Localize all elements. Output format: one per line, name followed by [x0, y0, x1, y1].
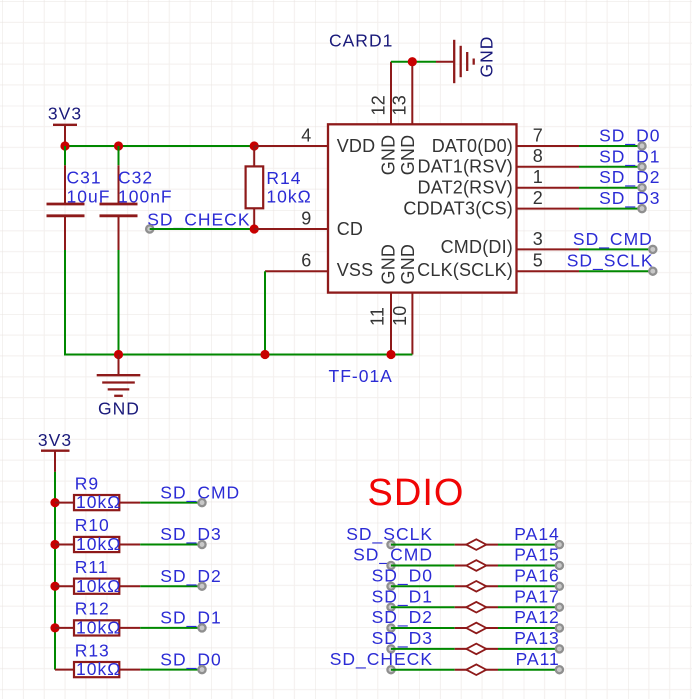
wire SD_SCLK to port: [391, 544, 455, 546]
resistor R12: [55, 599, 140, 638]
svg-text:5: 5: [533, 251, 543, 271]
net port SD_CHECK-PA11: [455, 664, 498, 675]
svg-text:10kΩ: 10kΩ: [76, 534, 121, 554]
wire SD_CHECK to port: [391, 669, 455, 671]
net label SD_SCLK: [567, 251, 657, 275]
svg-text:PA16: PA16: [514, 566, 560, 586]
pin 3 (SD_CMD): [517, 229, 580, 250]
svg-text:SD_D2: SD_D2: [160, 566, 221, 587]
pin name DAT1(RSV): [418, 157, 513, 177]
wire SD_CMD to port: [391, 565, 455, 567]
junction: [114, 141, 123, 150]
svg-text:GND: GND: [398, 135, 418, 176]
net port SD_SCLK-PA14: [455, 539, 498, 550]
wire C32 to ground rail: [118, 250, 120, 355]
net label SD_D3: [372, 628, 433, 652]
svg-text:SD_D2: SD_D2: [372, 607, 433, 628]
wire port to PA11: [498, 669, 559, 671]
wire C31 to ground rail: [64, 250, 66, 356]
resistor R13: [55, 640, 140, 679]
svg-text:PA12: PA12: [514, 607, 560, 627]
pin 4 (VDD): [254, 125, 328, 146]
pin 12 (GND): [368, 62, 391, 125]
svg-text:PA17: PA17: [514, 586, 560, 606]
svg-text:10kΩ: 10kΩ: [76, 492, 121, 512]
svg-text:2: 2: [533, 188, 543, 208]
svg-text:CMD(DI): CMD(DI): [441, 237, 513, 257]
junction: [50, 540, 59, 549]
wire SD_D0: [579, 145, 642, 147]
net label PA11: [516, 649, 563, 673]
pin name GND (pin 10): [398, 244, 418, 285]
svg-text:SD_CHECK: SD_CHECK: [147, 209, 250, 230]
wire SD_D0 to port: [391, 585, 455, 587]
pin 6 (VSS): [265, 251, 328, 272]
net label SD_CMD: [353, 545, 433, 569]
wire SD_D1 to port: [391, 606, 455, 608]
net label SD_CMD: [573, 229, 657, 253]
svg-text:SD_D3: SD_D3: [599, 188, 660, 209]
net label PA17: [514, 586, 563, 610]
pin name CDDAT3(CS): [403, 198, 513, 218]
junction: [250, 224, 259, 233]
pin 10 (GND): [390, 293, 413, 355]
resistor R14: [246, 146, 312, 229]
svg-text:GND: GND: [378, 135, 398, 176]
wire SD_CHECK: [150, 228, 255, 230]
resistor R11: [55, 557, 140, 596]
svg-text:GND: GND: [98, 398, 140, 418]
pin name CLK(SCLK): [417, 260, 513, 280]
net port SD_D0-PA16: [455, 581, 498, 592]
svg-text:VSS: VSS: [337, 260, 374, 280]
pin 2 (SD_D3): [517, 188, 580, 209]
svg-text:DAT0(D0): DAT0(D0): [432, 136, 513, 156]
capacitor C32: [100, 146, 173, 250]
svg-text:SD_D3: SD_D3: [372, 628, 433, 649]
svg-text:PA14: PA14: [514, 524, 560, 544]
ground GND (top right): [436, 36, 497, 84]
svg-text:CD: CD: [337, 219, 363, 239]
wire SD_D1 pull-up: [140, 627, 202, 629]
svg-text:PA15: PA15: [514, 545, 560, 565]
label TF-01A: [329, 366, 393, 386]
net port SD_D2-PA12: [455, 623, 498, 634]
power flag 3V3 (bottom): [38, 430, 72, 472]
label CARD1: [329, 31, 393, 51]
svg-text:SD_D1: SD_D1: [160, 608, 221, 629]
net label SD_SCLK: [346, 524, 433, 548]
net label PA12: [514, 607, 563, 631]
wire SD_D2 pull-up: [140, 585, 202, 587]
svg-text:DAT1(RSV): DAT1(RSV): [418, 157, 513, 177]
junction: [260, 350, 269, 359]
net port SD_D1-PA17: [455, 602, 498, 613]
connector CARD1 (TF-01A) body: [328, 124, 517, 292]
svg-text:CARD1: CARD1: [329, 31, 393, 51]
net port SD_D3-PA13: [455, 644, 498, 655]
net label SD_D2: [160, 566, 221, 590]
wire port to PA12: [498, 627, 559, 629]
svg-text:6: 6: [301, 251, 311, 271]
svg-text:R12: R12: [75, 599, 110, 619]
net label SD_D0: [160, 649, 221, 673]
resistor R9: [55, 473, 140, 512]
net port SD_CMD-PA15: [455, 560, 498, 571]
net label SD_D1: [599, 146, 660, 170]
wire port to PA16: [498, 585, 559, 587]
svg-text:3: 3: [533, 229, 543, 249]
pin 11 (GND): [367, 293, 391, 355]
svg-text:10kΩ: 10kΩ: [266, 187, 311, 207]
net label PA15: [514, 545, 563, 569]
junction: [50, 498, 59, 507]
junction: [250, 141, 259, 150]
ground GND (bottom): [97, 355, 141, 419]
svg-text:SD_D3: SD_D3: [160, 524, 221, 545]
wire top GND: [391, 61, 436, 63]
svg-text:R10: R10: [75, 515, 110, 535]
svg-text:DAT2(RSV): DAT2(RSV): [418, 178, 513, 198]
svg-text:SD_CMD: SD_CMD: [573, 229, 653, 250]
svg-text:SD_D0: SD_D0: [372, 566, 433, 587]
wire ground rail: [64, 354, 412, 356]
svg-text:1: 1: [533, 167, 543, 187]
net label SD_D2: [372, 607, 433, 631]
wire SD_D3 to port: [391, 648, 455, 650]
net label SD_CHECK: [146, 209, 250, 232]
pin name GND (pin 12): [378, 135, 398, 176]
net label SD_D2: [599, 167, 660, 191]
net label PA16: [514, 566, 563, 590]
pin name GND (pin 13): [398, 135, 418, 176]
resistor R10: [55, 515, 140, 554]
pin name DAT2(RSV): [418, 178, 513, 198]
svg-text:R9: R9: [75, 473, 99, 493]
wire SD_D3: [579, 208, 642, 210]
svg-text:SD_SCLK: SD_SCLK: [567, 251, 654, 272]
svg-text:SD_D1: SD_D1: [599, 146, 660, 167]
svg-text:SD_D2: SD_D2: [599, 167, 660, 188]
svg-text:100nF: 100nF: [118, 187, 173, 207]
svg-text:C31: C31: [67, 168, 102, 188]
title SDIO: [368, 472, 465, 514]
net label PA13: [514, 628, 563, 652]
svg-text:3V3: 3V3: [48, 104, 82, 124]
net label PA14: [514, 524, 563, 548]
pin name VDD: [337, 136, 376, 156]
pin name CD: [337, 219, 363, 239]
wire port to PA15: [498, 565, 559, 567]
net label SD_D3: [160, 524, 221, 548]
net label SD_CMD: [160, 482, 240, 506]
svg-text:4: 4: [301, 125, 311, 145]
svg-text:R13: R13: [75, 640, 110, 660]
junction: [386, 350, 395, 359]
capacitor C31: [47, 146, 111, 250]
pin 9 (CD): [254, 208, 328, 229]
junction: [408, 57, 417, 66]
svg-text:CLK(SCLK): CLK(SCLK): [417, 260, 513, 280]
pin 7 (SD_D0): [517, 125, 580, 146]
svg-text:10kΩ: 10kΩ: [76, 659, 121, 679]
svg-text:PA11: PA11: [516, 649, 560, 669]
svg-text:PA13: PA13: [514, 628, 560, 648]
net label SD_D0: [372, 566, 433, 590]
pin name CMD(DI): [441, 237, 513, 257]
wire SD_D3 pull-up: [140, 544, 202, 546]
svg-text:GND: GND: [398, 244, 418, 285]
wire VDD rail: [65, 145, 254, 147]
wire SD_D2 to port: [391, 627, 455, 629]
wire port to PA13: [498, 648, 559, 650]
svg-text:10kΩ: 10kΩ: [76, 576, 121, 596]
svg-text:R14: R14: [266, 168, 301, 188]
wire VSS to ground rail: [264, 271, 266, 354]
svg-text:CDDAT3(CS): CDDAT3(CS): [403, 198, 513, 218]
svg-text:12: 12: [368, 95, 388, 115]
wire 3V3 pull-up bus: [54, 472, 56, 670]
wire port to PA14: [498, 544, 559, 546]
wire port to PA17: [498, 606, 559, 608]
svg-text:SDIO: SDIO: [368, 472, 465, 514]
svg-text:TF-01A: TF-01A: [329, 366, 393, 386]
net label SD_D3: [599, 188, 660, 212]
svg-text:9: 9: [301, 208, 311, 228]
svg-text:SD_D1: SD_D1: [372, 586, 433, 607]
svg-text:11: 11: [367, 307, 387, 326]
power flag 3V3 (top): [48, 104, 82, 147]
svg-text:R11: R11: [75, 557, 109, 577]
net label SD_D1: [372, 586, 433, 610]
svg-text:GND: GND: [477, 36, 497, 78]
junction: [60, 141, 69, 150]
pin 13 (GND): [390, 62, 413, 125]
wire SD_SCLK: [579, 270, 653, 272]
wire SD_D1: [579, 166, 642, 168]
junction: [50, 623, 59, 632]
svg-text:SD_D0: SD_D0: [160, 649, 221, 670]
pin name VSS: [337, 260, 374, 280]
svg-text:SD_D0: SD_D0: [599, 126, 660, 147]
pin name GND (pin 11): [378, 244, 398, 285]
svg-text:10: 10: [390, 306, 410, 326]
junction: [50, 582, 59, 591]
svg-text:VDD: VDD: [337, 136, 376, 156]
net label SD_D0: [599, 126, 660, 150]
svg-text:7: 7: [533, 125, 543, 145]
net label SD_D1: [160, 608, 221, 632]
svg-text:SD_CHECK: SD_CHECK: [330, 649, 433, 670]
junction: [114, 350, 123, 359]
net label SD_CHECK: [330, 649, 433, 673]
wire SD_CMD pull-up: [140, 502, 202, 504]
svg-text:10kΩ: 10kΩ: [76, 618, 121, 638]
wire SD_CMD: [579, 248, 653, 250]
wire SD_D0 pull-up: [140, 669, 202, 671]
pin 8 (SD_D1): [517, 146, 580, 167]
svg-text:13: 13: [390, 95, 410, 115]
wire SD_D2: [579, 187, 642, 189]
svg-text:8: 8: [533, 146, 543, 166]
svg-text:3V3: 3V3: [38, 430, 72, 450]
svg-text:C32: C32: [118, 168, 153, 188]
pin 1 (SD_D2): [517, 167, 580, 188]
pin 5 (SD_SCLK): [517, 251, 580, 272]
svg-text:GND: GND: [378, 244, 398, 285]
pin name DAT0(D0): [432, 136, 513, 156]
